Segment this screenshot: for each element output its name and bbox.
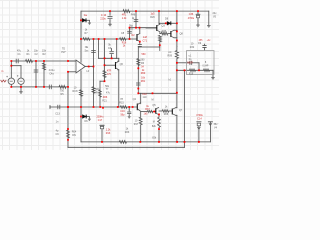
svg-text:500: 500 (95, 88, 100, 91)
svg-text:RC8: RC8 (73, 90, 79, 93)
svg-text:C71: C71 (143, 40, 148, 43)
svg-text:C36: C36 (189, 13, 194, 16)
svg-text:P27: P27 (61, 51, 66, 54)
svg-text:C4a: C4a (49, 74, 54, 76)
svg-text:C14: C14 (197, 117, 202, 120)
svg-text:1n0: 1n0 (143, 96, 148, 99)
svg-text:10n: 10n (34, 49, 39, 52)
svg-text:Ge: Ge (84, 13, 88, 17)
svg-text:R17: R17 (134, 123, 139, 126)
svg-text:C13: C13 (55, 112, 60, 115)
svg-text:560: 560 (142, 53, 147, 56)
svg-text:R37: R37 (145, 108, 150, 111)
svg-text:4R6: 4R6 (103, 96, 108, 99)
svg-text:1.2k: 1.2k (106, 129, 111, 132)
svg-text:47u: 47u (106, 92, 111, 95)
svg-text:R26: R26 (150, 16, 155, 19)
svg-text:R21: R21 (102, 100, 107, 103)
svg-text:DN: DN (72, 134, 76, 137)
svg-text:R32: R32 (190, 46, 195, 49)
svg-text:1.2k: 1.2k (122, 17, 127, 20)
svg-text:TD: TD (62, 48, 65, 51)
svg-text:R13: R13 (106, 132, 111, 135)
svg-text:R08: R08 (164, 113, 169, 116)
svg-text:M: M (152, 98, 154, 101)
svg-text:560R: 560R (187, 62, 193, 64)
svg-text:NE: NE (85, 46, 89, 49)
svg-text:4700u: 4700u (188, 18, 195, 20)
svg-text:1k5: 1k5 (144, 112, 149, 115)
svg-text:M: M (153, 121, 155, 124)
svg-text:R2b: R2b (125, 131, 130, 134)
svg-text:4.04u: 4.04u (49, 70, 56, 72)
svg-text:47u: 47u (17, 49, 22, 52)
svg-text:R04: R04 (72, 131, 77, 134)
svg-text:220u: 220u (100, 17, 106, 20)
svg-text:C17: C17 (98, 119, 103, 122)
svg-text:470: 470 (107, 73, 112, 76)
svg-text:R19: R19 (189, 73, 194, 75)
svg-text:R09: R09 (168, 55, 173, 58)
svg-text:R61: R61 (141, 80, 146, 83)
svg-text:R15: R15 (119, 102, 124, 105)
svg-text:R60: R60 (141, 72, 146, 75)
svg-text:0.04P: 0.04P (203, 65, 209, 67)
svg-text:R25: R25 (162, 31, 167, 33)
svg-text:56p: 56p (120, 114, 125, 117)
